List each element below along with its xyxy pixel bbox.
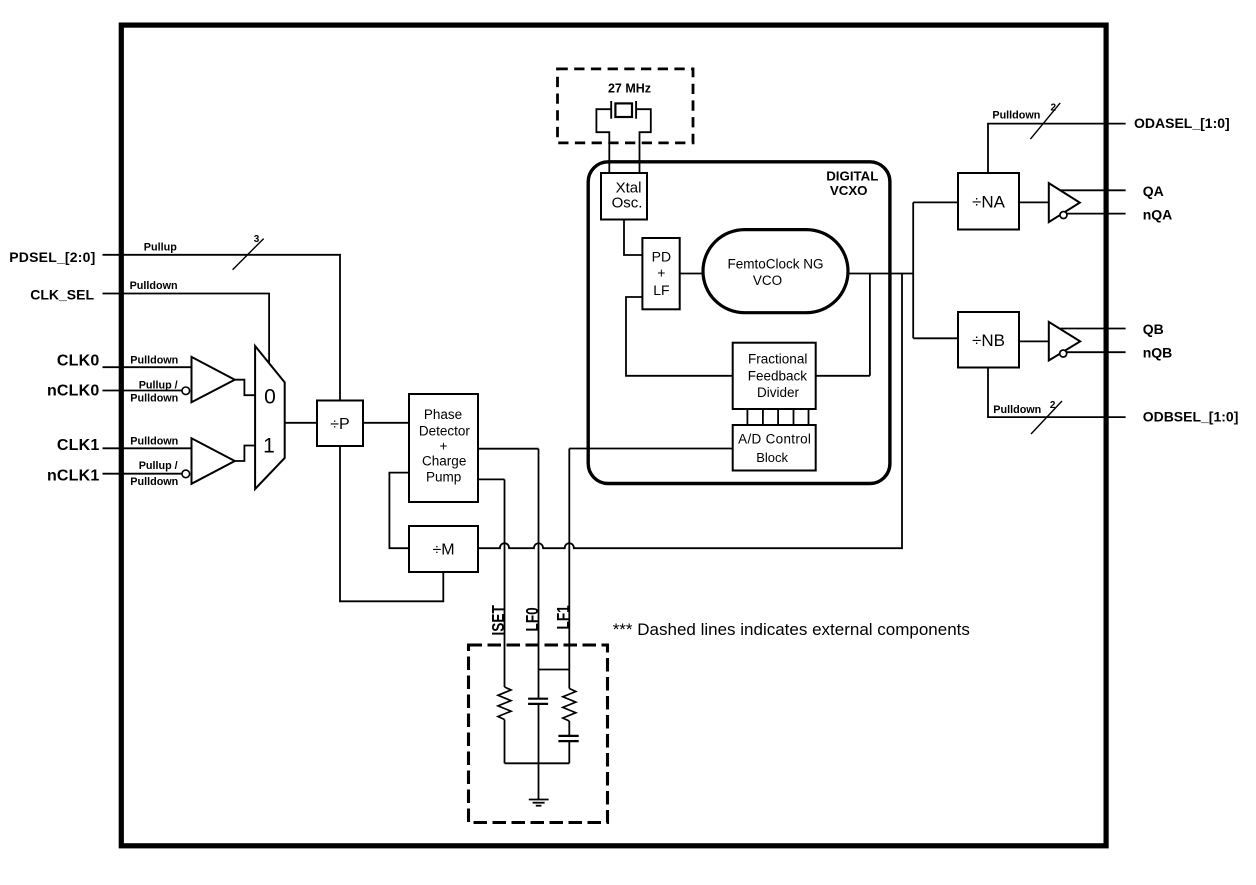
svg-text:Pulldown: Pulldown [130,392,178,404]
wire QA [1060,189,1125,191]
wire CLK_SEL to mux select [103,294,270,364]
svg-text:Pump: Pump [426,469,461,484]
svg-text:2: 2 [1051,103,1057,114]
svg-text:ISET: ISET [489,605,508,636]
svg-text:VCXO: VCXO [830,183,868,198]
label DIGITAL VCXO [826,168,878,198]
wire divider P to phase detector [363,422,409,424]
divider M [409,526,478,572]
svg-text:CLK_SEL: CLK_SEL [30,287,94,303]
wire charge pump to LF0 [478,448,539,450]
wire PD+LF to VCO [680,273,703,275]
svg-text:LF0: LF0 [523,607,542,631]
capacitor (LF0 leg) [528,699,548,704]
divider NA [958,173,1019,230]
wire crystal right lead [636,109,651,173]
wire divider NA to output buffer QA [1019,201,1049,203]
svg-text:÷NA: ÷NA [972,192,1006,211]
svg-text:QA: QA [1143,183,1164,199]
wire divider P feedback to divider M [340,446,443,601]
DIGITAL VCXO block [588,162,890,484]
IC boundary box [121,25,1106,846]
svg-text:*** Dashed lines indicates ext: *** Dashed lines indicates external comp… [613,620,970,639]
svg-text:Osc.: Osc. [612,195,643,212]
wire LF1 to A/D control block [569,448,732,450]
svg-text:VCO: VCO [753,273,782,288]
svg-text:Divider: Divider [757,385,800,400]
crystal (27 MHz) [611,101,636,119]
svg-text:3: 3 [254,234,260,245]
divider P [317,401,363,447]
svg-text:PDSEL_[2:0]: PDSEL_[2:0] [9,249,95,265]
wire feedback divider right [816,375,870,377]
svg-text:Pulldown: Pulldown [130,436,178,448]
svg-text:Pullup: Pullup [144,242,177,254]
svg-text:Pulldown: Pulldown [130,355,178,367]
FemtoClock NG VCO [703,230,848,313]
wire bottom node [505,762,570,764]
output buffer QA [1049,183,1080,222]
svg-text:FemtoClock NG: FemtoClock NG [727,257,823,272]
svg-text:1: 1 [263,435,275,458]
wire mux output [285,422,317,424]
wire trunk to divider NA [913,201,958,203]
wire buffer1 to mux input 1 [235,446,255,462]
svg-text:A/D Control: A/D Control [738,432,811,447]
svg-text:Charge: Charge [422,454,466,469]
wire divider M output with crossover hops [478,274,902,549]
svg-text:÷M: ÷M [432,542,454,559]
svg-text:Pulldown: Pulldown [993,404,1041,416]
svg-text:nQB: nQB [1143,345,1173,361]
PD + LF block [642,238,679,309]
svg-text:Pulldown: Pulldown [992,109,1040,121]
wire LF1 capacitor to bottom node [568,741,570,763]
divider NB [958,312,1019,368]
wire divider NB to ODBSEL [988,368,1126,418]
resistor (ISET leg) [498,687,511,720]
svg-text:2: 2 [1050,400,1056,411]
svg-text:Feedback: Feedback [748,368,808,383]
fractional feedback divider [733,343,816,409]
wire LF1 resistor to capacitor [568,721,570,736]
wire divider M to phase detector [389,473,409,549]
wire VCO to output dividers trunk [912,202,914,338]
svg-text:nCLK1: nCLK1 [47,468,100,485]
resistor (LF1 leg) [563,689,576,722]
output buffer QB [1049,322,1080,361]
wire nCLK1 [103,473,183,475]
wire buffer0 to mux input 0 [235,380,255,396]
phase detector + charge pump block [409,394,478,502]
svg-text:QB: QB [1143,321,1164,337]
wire LF0 vertical [538,449,540,699]
svg-text:Phase: Phase [424,407,462,422]
wire nQA [1067,213,1126,215]
svg-text:nQA: nQA [1143,207,1173,223]
svg-text:27 MHz: 27 MHz [608,82,651,96]
external loop filter dashed box [469,645,608,823]
input buffer CLK1 [182,438,235,484]
wire LF1 vertical [568,449,570,689]
wire nQB [1067,351,1126,353]
A/D control block [733,425,816,471]
wire divider NB to output buffer QB [1019,340,1049,342]
bus slash PDSEL [233,239,264,270]
svg-text:Fractional: Fractional [748,351,807,366]
svg-text:nCLK0: nCLK0 [47,383,100,400]
svg-text:CLK0: CLK0 [57,353,100,370]
svg-text:LF: LF [653,282,669,298]
ground [529,800,549,806]
svg-text:+: + [657,265,665,281]
wire CLK0 [103,366,192,368]
bus slash ODBSEL [1031,401,1062,434]
wire PDSEL bus to divider P [103,255,341,401]
capacitor (LF1 leg) [558,736,578,741]
wire trunk to divider NB [913,337,958,339]
wire charge pump to ISET [478,478,505,480]
wire ISET to bottom node [504,720,506,764]
wire feedback divider to PD+LF [626,297,733,376]
bus slash ODASEL [1030,103,1060,139]
svg-text:Pulldown: Pulldown [130,476,178,488]
bus feedback divider to A/D control (5 lines) [747,409,808,425]
svg-text:Block: Block [756,450,788,465]
wire VCO output [848,273,913,275]
input buffer CLK0 [182,357,235,402]
wire Xtal Osc to PD [624,220,642,256]
svg-text:ODASEL_[1:0]: ODASEL_[1:0] [1134,115,1230,131]
wire VCO to feedback divider [869,274,871,376]
crystal oscillator block [601,173,647,220]
svg-text:0: 0 [264,385,276,408]
svg-text:LF1: LF1 [554,605,573,629]
clock select mux [255,346,285,489]
svg-text:Pulldown: Pulldown [130,280,178,292]
svg-text:+: + [439,439,447,454]
wire QB [1060,328,1125,330]
wire LF0 to LF1 branch [539,669,570,671]
svg-text:÷P: ÷P [330,416,349,433]
wire CLK1 [103,447,192,449]
wire ODASEL to divider NA [988,124,1126,173]
svg-text:ODBSEL_[1:0]: ODBSEL_[1:0] [1143,409,1239,425]
svg-text:Pullup /: Pullup / [139,460,178,472]
wire crystal left lead [596,109,611,173]
svg-text:DIGITAL: DIGITAL [826,168,878,183]
wire nCLK0 [103,390,183,392]
svg-text:CLK1: CLK1 [57,437,100,454]
wire ISET vertical [504,479,506,687]
svg-text:Detector: Detector [419,423,471,438]
crystal dashed box (external) [558,69,694,143]
wire LF0 below capacitor to ground [538,704,540,800]
svg-text:PD: PD [652,248,671,264]
svg-text:÷NB: ÷NB [972,331,1005,350]
